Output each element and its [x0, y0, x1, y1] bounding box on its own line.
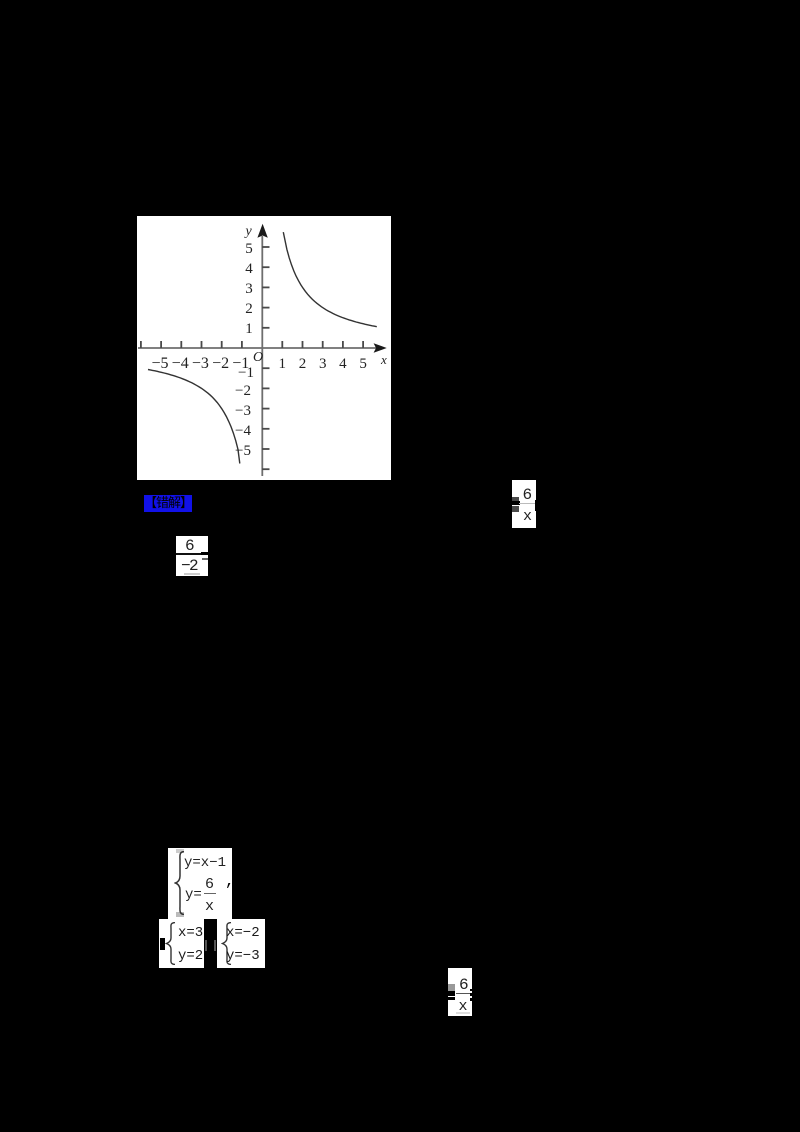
svg-text:−3: −3 — [235, 403, 251, 419]
svg-text:4: 4 — [339, 356, 347, 372]
svg-text:−3: −3 — [192, 355, 209, 372]
svg-text:−5: −5 — [235, 443, 251, 459]
svg-text:5: 5 — [245, 241, 253, 257]
svg-text:1: 1 — [245, 321, 253, 337]
svg-text:3: 3 — [245, 281, 253, 297]
svg-text:y: y — [244, 224, 253, 239]
svg-text:−4: −4 — [235, 423, 251, 439]
svg-text:−4: −4 — [172, 355, 189, 372]
svg-text:−1: −1 — [232, 355, 249, 372]
svg-text:1: 1 — [279, 356, 287, 372]
svg-text:x: x — [380, 352, 387, 367]
svg-text:2: 2 — [245, 301, 253, 317]
svg-text:−5: −5 — [151, 355, 168, 372]
svg-text:O: O — [253, 350, 263, 365]
svg-text:5: 5 — [359, 356, 367, 372]
svg-text:4: 4 — [245, 261, 253, 277]
svg-text:2: 2 — [299, 356, 307, 372]
svg-text:−2: −2 — [212, 355, 229, 372]
svg-text:−2: −2 — [235, 383, 251, 399]
svg-text:3: 3 — [319, 356, 327, 372]
